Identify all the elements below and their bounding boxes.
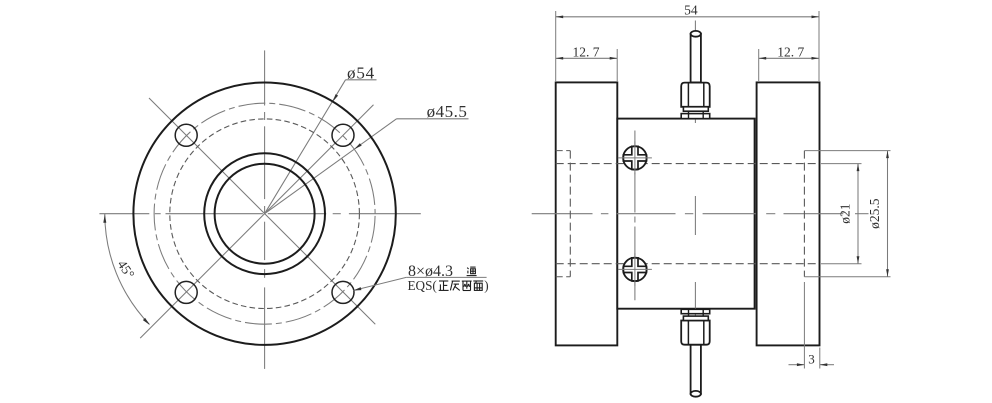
svg-text:3: 3 [808,351,815,366]
svg-text:54: 54 [684,2,698,17]
svg-text:ø45.5: ø45.5 [427,102,468,121]
svg-text:12. 7: 12. 7 [777,45,804,60]
svg-text:ø21: ø21 [838,204,853,224]
svg-text:EQS(: EQS( [408,278,437,293]
svg-text:): ) [484,278,488,293]
svg-text:ø54: ø54 [347,63,375,82]
svg-text:12. 7: 12. 7 [573,45,600,60]
svg-text:ø25.5: ø25.5 [867,198,882,229]
